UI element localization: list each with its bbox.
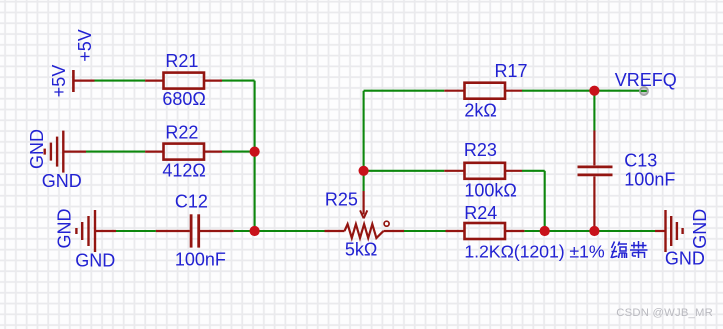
svg-text:+5V: +5V (49, 65, 69, 98)
svg-text:100nF: 100nF (624, 169, 675, 189)
svg-text:CSDN @WJB_MR: CSDN @WJB_MR (616, 307, 713, 319)
svg-text:2kΩ: 2kΩ (464, 100, 496, 120)
svg-text:R22: R22 (165, 123, 198, 143)
svg-text:R25: R25 (325, 189, 358, 209)
svg-text:412Ω: 412Ω (162, 161, 206, 181)
svg-text:GND: GND (27, 129, 47, 169)
svg-text:1.2KΩ(1201) ±1%: 1.2KΩ(1201) ±1% (464, 241, 604, 261)
svg-text:C12: C12 (175, 192, 208, 212)
svg-text:GND: GND (42, 171, 82, 191)
svg-text:R23: R23 (464, 140, 497, 160)
svg-text:R21: R21 (165, 51, 198, 71)
svg-text:R17: R17 (495, 61, 528, 81)
svg-text:100nF: 100nF (175, 249, 226, 269)
svg-text:R24: R24 (464, 203, 497, 223)
svg-text:GND: GND (55, 209, 75, 249)
svg-text:680Ω: 680Ω (162, 89, 206, 109)
svg-text:5kΩ: 5kΩ (345, 239, 377, 259)
svg-text:C13: C13 (624, 151, 657, 171)
svg-text:GND: GND (690, 209, 710, 249)
svg-text:+5V: +5V (75, 29, 95, 62)
svg-text:VREFQ: VREFQ (615, 70, 677, 90)
svg-text:GND: GND (665, 248, 705, 268)
svg-text:GND: GND (75, 251, 115, 271)
svg-text:100kΩ: 100kΩ (464, 181, 517, 201)
